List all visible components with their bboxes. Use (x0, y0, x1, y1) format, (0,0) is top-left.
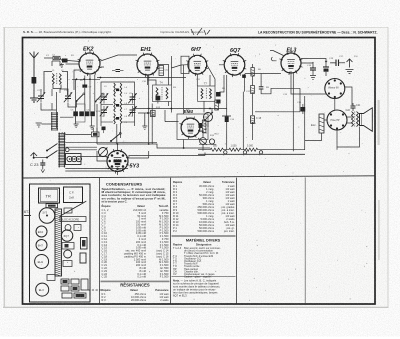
wire 5Y3 sides (97, 151, 149, 175)
ground det (142, 113, 147, 130)
paper sheet (3, 27, 389, 308)
chassis dashed lead (88, 289, 103, 291)
paper speckle (33, 40, 368, 301)
trimmer CV4 (128, 93, 136, 104)
resistor table header col2 (173, 180, 235, 184)
wire 5Y3 top (117, 144, 119, 151)
antenna coil block L1 L2 (44, 70, 68, 95)
wire socket to transformer (305, 117, 360, 150)
vertical wire 6Q7 down (252, 77, 254, 140)
ground C18 (310, 76, 316, 80)
oscillator coil block T1 T2 T3 (101, 82, 135, 144)
wires ladder to right (65, 135, 157, 171)
capacitor C16 blob (301, 107, 306, 112)
output transformer T8 (352, 112, 359, 127)
node avc feed a (148, 108, 150, 110)
node bus77 (100, 77, 102, 79)
wire EK2 cathode down (72, 75, 100, 112)
nota paragraph (173, 279, 220, 298)
tube EH1 (136, 47, 160, 77)
wire EL3 to sockets (291, 71, 352, 110)
chassis terminal strip (46, 204, 58, 208)
resistor R13 (251, 116, 255, 124)
wire 6Q7 to EL3 (245, 64, 281, 77)
trimmer CV1 (37, 92, 45, 103)
resistor R1 grid (53, 56, 60, 59)
potentiometer P1 (99, 148, 108, 157)
resistor R9 on wire (251, 86, 255, 94)
blob 6Q7 pin (242, 75, 246, 78)
note rule (172, 276, 236, 278)
condensateurs table header (102, 204, 169, 208)
capacitor C1 (62, 59, 68, 65)
trimmer CV3 (100, 93, 108, 104)
wire HT line (129, 153, 206, 156)
wire coil to trimmer row (41, 89, 57, 128)
chassis label 6T3 (24, 210, 31, 216)
capacitor C30 blob (156, 93, 161, 104)
contact ladder T.A (51, 112, 58, 131)
capacitor near P1 (102, 127, 106, 134)
capacitor C21 (351, 103, 356, 111)
5Y3 pin dots (108, 152, 126, 170)
chassis layout outline (30, 184, 91, 302)
EL3 grid cap wire (270, 51, 284, 61)
capacitor C19 (323, 62, 329, 77)
wire coil box top (52, 61, 60, 66)
vertical wire mid (183, 65, 185, 149)
resistances rule (101, 280, 170, 283)
black blob cathode (82, 85, 87, 88)
resistor rows col2 (173, 184, 235, 233)
chassis bus (198, 153, 305, 155)
capacitor C15 blob (216, 92, 221, 104)
chassis tube 5Y3 (39, 208, 55, 224)
ground ladder (36, 123, 51, 127)
ground C1 (60, 65, 64, 68)
resistor R10 (210, 148, 223, 151)
wire 6Q7 grid (219, 65, 224, 92)
speaker (360, 108, 373, 132)
wire C16 (302, 104, 304, 114)
wire T4 to 6H7 (169, 56, 188, 113)
coupling resistor R7 on wire (251, 68, 254, 77)
switch lever S1b (95, 93, 104, 102)
wire coil box bottom to switch (52, 89, 60, 110)
chassis transformer TR (39, 188, 60, 203)
vertical wire EH1 down (149, 76, 153, 145)
antenna (30, 52, 39, 99)
chassis small parts mid (47, 208, 86, 281)
aerial terre symbol (31, 153, 48, 159)
switch lever S3 (110, 133, 121, 143)
IF transformer T7 (198, 82, 216, 102)
materiel rows (173, 246, 221, 279)
scan texture overlay (0, 0, 1, 1)
resistor R8 vertical (215, 100, 219, 110)
chassis tube EK2 (36, 226, 47, 237)
tube 6Q7 (223, 48, 246, 77)
chassis MF can a (81, 238, 88, 250)
table column rule 3 (236, 178, 238, 304)
capacitor C14 on T7 line (222, 116, 231, 122)
tube EL3 (280, 48, 303, 76)
wire 300 down (255, 104, 300, 112)
table column rule 1 (99, 178, 101, 304)
materiel header (173, 243, 212, 247)
wire left mid connections (60, 76, 97, 144)
staircase wire 6Q7 to EL3 (261, 74, 300, 105)
wire trimmer CV2 (60, 89, 77, 107)
AVC feed bus (133, 108, 227, 110)
blob below P2 (199, 123, 203, 128)
capacitor C17 (330, 60, 345, 67)
chassis tube 6Q7 (61, 230, 72, 241)
condensateurs intro paragraph (102, 187, 167, 203)
resistor R15 (151, 110, 156, 116)
chassis tube 6H7 (36, 240, 47, 251)
switch lever S1a (76, 93, 85, 102)
node avc (148, 143, 150, 145)
resistances rows (102, 292, 170, 302)
resistor R12 (246, 148, 258, 151)
wire antenna to grid (44, 58, 81, 62)
component value labels (37, 55, 358, 157)
vertical wire diode load (242, 92, 244, 150)
wire EL3 top (291, 48, 336, 63)
capacitor C10 (159, 66, 169, 76)
wire EK2 to osc block (66, 64, 105, 76)
chassis capacitor block (64, 187, 83, 203)
pickup jack (346, 59, 354, 74)
resistances header (102, 288, 170, 292)
materiel divers rule (172, 235, 236, 238)
chassis tuning gang (55, 209, 62, 276)
resistor in EM4 box (202, 120, 206, 133)
chassis dial pointer (60, 201, 87, 216)
trimmer CV6 (128, 106, 136, 117)
grounds under cap bank (74, 116, 95, 129)
B+ chain wire (198, 149, 305, 151)
condensateurs rows (102, 208, 170, 279)
tube EM4 tuning eye (180, 109, 202, 139)
trimmer CV2 (64, 92, 72, 103)
chassis tube EL3 (36, 283, 49, 296)
header mark (191, 28, 210, 35)
6H7 shield box (181, 56, 189, 73)
node avc feed c (209, 108, 211, 110)
wire bus y77 (97, 77, 186, 79)
node det (147, 112, 149, 114)
detector cluster P2 switch (198, 134, 219, 146)
trimmer CV5 (100, 106, 108, 117)
node dots EK2 (76, 78, 78, 80)
EM4 mounting outline (177, 114, 208, 140)
vertical wire AF (243, 74, 245, 92)
IF transformer T4 (153, 81, 172, 102)
wire EK2 plate to EH1 (101, 55, 138, 61)
potentiometer P2 (204, 112, 214, 127)
EM4 terminal marks (203, 117, 207, 133)
wire 6H7 plate down (197, 65, 215, 86)
tube socket prise HP (327, 110, 347, 130)
wire AVC bus (97, 144, 210, 148)
switch levers (46, 144, 58, 159)
ground antenna (30, 98, 38, 102)
switch ladder S2 (58, 133, 69, 168)
tube 5Y3 (106, 149, 139, 173)
vertical wire EL3 grid side (292, 73, 294, 151)
coil value labels (96, 86, 128, 124)
vertical wire right (304, 96, 306, 150)
capacitor C18 (310, 62, 316, 75)
node C19 (325, 61, 327, 63)
table column rule 4 (304, 177, 306, 303)
wire pot region (198, 102, 212, 151)
capacitor C12 (259, 87, 264, 89)
table column rule 2 (170, 178, 172, 304)
decoupling capacitor bank C5-C8 (71, 104, 95, 122)
tube socket vibreur (325, 79, 345, 99)
mains socket (66, 154, 82, 165)
section divider line (23, 176, 376, 178)
component top right of ladder (92, 128, 100, 137)
wire EM4 left (138, 104, 179, 122)
resistor R11 (229, 148, 241, 151)
chassis connector cluster (61, 279, 88, 298)
capacitor C9 (112, 70, 124, 72)
border frame (23, 38, 376, 305)
wire EH1 connections (148, 65, 169, 86)
node avc feed b (171, 108, 173, 110)
chassis tube EH1 (35, 255, 49, 269)
capacitor C23 (30, 160, 45, 173)
scan smudge right (378, 100, 380, 145)
wire EK2 top cap (89, 50, 91, 54)
tube EK2 (78, 47, 102, 77)
chassis MF can b (80, 253, 86, 263)
tube 6H7 (186, 47, 208, 76)
node dots bus (224, 151, 263, 154)
vertical wire T7 down (226, 75, 228, 150)
field coil EXC (311, 114, 324, 133)
